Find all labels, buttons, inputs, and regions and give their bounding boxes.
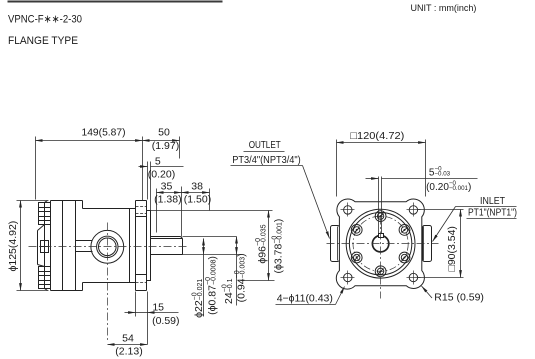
svg-text:(1.50): (1.50) xyxy=(184,193,211,205)
shaft extension lines xyxy=(183,236,237,238)
rear cover face line xyxy=(44,203,46,289)
rear cover chamfer bottom xyxy=(38,265,45,267)
main horizontal centerline xyxy=(29,246,189,248)
svg-text:FLANGE TYPE: FLANGE TYPE xyxy=(8,35,78,47)
hole bottom-left xyxy=(344,273,352,281)
svg-text:R15 (0.59): R15 (0.59) xyxy=(434,291,484,303)
label 24 tol rotated xyxy=(222,278,235,304)
dim box120 xyxy=(336,140,338,197)
label phi96 tol rotated xyxy=(255,224,268,263)
svg-text:15: 15 xyxy=(152,301,164,313)
svg-text:PT3/4"(NPT3/4"): PT3/4"(NPT3/4") xyxy=(232,155,301,166)
dim 15 xyxy=(135,292,137,317)
cover bolts x6 xyxy=(351,211,410,277)
dim 35 xyxy=(156,189,158,233)
svg-text:□90(3.54): □90(3.54) xyxy=(446,226,458,271)
cover bolt center dots xyxy=(356,215,406,272)
svg-text:50: 50 xyxy=(158,127,170,139)
svg-text:ϕ22−0−0.021: ϕ22−0−0.021 xyxy=(192,279,205,318)
dim key 5 xyxy=(378,177,380,234)
svg-text:24−0−0.1: 24−0−0.1 xyxy=(222,278,235,304)
flange outline with corner lobes xyxy=(336,199,424,289)
tab inner line left xyxy=(337,227,339,261)
flange hidden bolt hole top (dashed) xyxy=(136,207,147,283)
horizontal centerline xyxy=(327,243,439,245)
svg-text:(ϕ0.87−0−0.0008): (ϕ0.87−0−0.0008) xyxy=(205,256,218,315)
svg-text:INLET: INLET xyxy=(480,196,505,207)
shaft keyway xyxy=(379,234,384,238)
cover circle xyxy=(349,213,411,275)
shaft circle xyxy=(372,236,388,252)
corner hole crosshairs xyxy=(341,203,421,285)
flange top slot box xyxy=(136,216,147,218)
svg-text:UNIT : mm(inch): UNIT : mm(inch) xyxy=(411,3,477,13)
rear cover chamfer top xyxy=(45,201,48,203)
section line x=61.5 xyxy=(62,201,64,291)
rear boss middle xyxy=(41,241,49,253)
body step at x=82.5 xyxy=(82,201,84,209)
svg-text:VPNC-F∗∗-2-30: VPNC-F∗∗-2-30 xyxy=(8,14,82,26)
port neck lines xyxy=(76,240,93,242)
dim phi96 xyxy=(147,210,273,212)
svg-text:PT1"(NPT1"): PT1"(NPT1") xyxy=(468,208,517,219)
dim 50 xyxy=(179,137,181,159)
side port bore circle xyxy=(99,238,117,256)
section line x=50 xyxy=(50,201,52,291)
svg-text:38: 38 xyxy=(191,180,203,192)
bolt circle dash-dot xyxy=(353,216,408,271)
hole top-right xyxy=(409,206,417,214)
dim 24 xyxy=(236,237,238,255)
header rule xyxy=(8,1,223,3)
dim box90 xyxy=(418,209,464,211)
port vertical centerline xyxy=(107,223,109,343)
dim 54 xyxy=(108,344,148,346)
4-phi11 leader xyxy=(276,304,336,306)
body front section line x=129 xyxy=(129,209,131,283)
bolt bottom xyxy=(375,266,386,277)
svg-text:(ϕ3.78−0−0.001): (ϕ3.78−0−0.001) xyxy=(271,219,284,274)
svg-text:(0.20−0−0.001): (0.20−0−0.001) xyxy=(426,180,471,193)
R15 leader xyxy=(422,286,433,298)
label (phi3.78 tol) rotated xyxy=(271,219,284,274)
front view centerlines xyxy=(327,217,439,299)
inlet label leader xyxy=(456,206,517,208)
svg-text:54: 54 xyxy=(122,333,134,345)
svg-text:4−ϕ11(0.43): 4−ϕ11(0.43) xyxy=(277,293,333,305)
label phi22 tol rotated xyxy=(192,279,205,318)
section line x=74.7 xyxy=(75,201,77,291)
bolt lower-right xyxy=(399,252,410,263)
svg-text:(1.38): (1.38) xyxy=(154,193,181,205)
corner mounting holes xyxy=(344,206,418,282)
svg-text:(1.97): (1.97) xyxy=(152,140,179,152)
mounting flange plate xyxy=(135,201,137,291)
tab inner line right xyxy=(423,227,425,261)
dim 38 xyxy=(209,189,211,211)
pilot boss xyxy=(147,211,151,281)
label (0.94 tol) rotated xyxy=(234,253,247,302)
dim phi125 xyxy=(17,200,49,202)
outlet label leader xyxy=(244,151,285,153)
svg-text:□120(4.72): □120(4.72) xyxy=(350,130,404,142)
shaft key top line xyxy=(151,236,181,238)
svg-text:5−0−0.03: 5−0−0.03 xyxy=(429,166,451,179)
shaft xyxy=(151,238,183,240)
rear cover left edge xyxy=(37,231,39,265)
dim 5 side xyxy=(147,162,149,200)
dim 149 xyxy=(35,137,37,200)
svg-text:(0.59): (0.59) xyxy=(152,315,179,327)
rear rib block top xyxy=(39,203,51,225)
svg-text:ϕ96−0−0.035: ϕ96−0−0.035 xyxy=(255,224,268,263)
label box90(3.54) rotated xyxy=(446,226,458,271)
bolt upper-right xyxy=(399,225,410,236)
flange bottom slot box xyxy=(136,274,147,276)
svg-text:149(5.87): 149(5.87) xyxy=(82,127,126,139)
svg-text:ϕ125(4.92): ϕ125(4.92) xyxy=(7,221,19,272)
svg-text:(0.94−0−0.003): (0.94−0−0.003) xyxy=(234,253,247,302)
side port thread circle xyxy=(97,236,118,257)
label (phi0.87 tol) rotated xyxy=(205,256,218,315)
rear rib block bottom xyxy=(39,267,51,289)
hole top-left xyxy=(344,206,352,214)
svg-text:35: 35 xyxy=(161,180,173,192)
bolt top xyxy=(375,211,386,222)
svg-text:5: 5 xyxy=(155,156,161,168)
bolt upper-left xyxy=(351,225,362,236)
outlet port tab (left) xyxy=(331,226,340,262)
mid body top/bottom edges xyxy=(83,208,136,210)
label phi125(4.92) rotated xyxy=(7,221,19,272)
svg-text:(2.13): (2.13) xyxy=(115,346,142,358)
side port boss outer circle xyxy=(91,230,124,263)
svg-text:OUTLET: OUTLET xyxy=(249,140,281,151)
svg-text:(0.20): (0.20) xyxy=(148,168,175,180)
vertical centerline xyxy=(380,217,382,299)
pilot circle xyxy=(346,209,415,278)
bolt lower-left xyxy=(351,252,362,263)
body rear top/bottom edges xyxy=(51,200,83,202)
inlet port tab (right) xyxy=(423,226,432,262)
dim phi22 xyxy=(203,239,205,255)
hole bottom-right xyxy=(409,273,417,281)
